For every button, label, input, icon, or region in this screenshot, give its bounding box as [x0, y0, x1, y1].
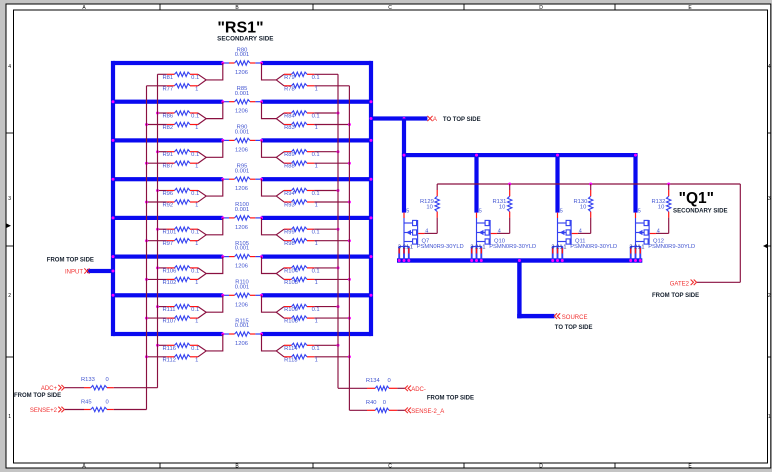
label R90 value	[235, 125, 250, 136]
wire: R88 to sense rail	[314, 162, 351, 165]
svg-text:0.1: 0.1	[191, 230, 199, 236]
svg-text:1: 1	[195, 125, 198, 131]
label R130	[573, 199, 587, 211]
svg-text:0.1: 0.1	[191, 346, 199, 352]
svg-text:1: 1	[315, 164, 318, 170]
label TO TOP SIDE (A)	[443, 117, 481, 123]
svg-text:0: 0	[106, 399, 109, 405]
svg-text:1: 1	[195, 319, 198, 325]
svg-text:1: 1	[315, 125, 318, 131]
label R108	[284, 319, 318, 325]
resistor R134 0	[338, 386, 405, 390]
svg-text:R97: R97	[163, 241, 174, 247]
wire: R83 to sense rail	[314, 123, 351, 126]
svg-text:ADC+: ADC+	[41, 386, 58, 392]
resistor R98 1	[284, 238, 314, 242]
svg-text:2: 2	[8, 293, 11, 299]
svg-text:3: 3	[768, 196, 771, 202]
wire: R104 to sense rail	[314, 266, 339, 269]
wire: gate rail	[437, 183, 740, 185]
svg-text:PSMN0R9-30YLD: PSMN0R9-30YLD	[570, 244, 617, 250]
label R133 value	[81, 377, 109, 383]
wire: left vertical bus bar	[111, 61, 115, 336]
svg-text:1: 1	[410, 245, 413, 251]
svg-text:1: 1	[560, 245, 563, 251]
wire: R107 to sense rail	[145, 317, 167, 320]
port SENSE+2	[30, 407, 64, 415]
wire: R111 to sense rail	[156, 305, 167, 308]
junction dot SOURCE	[518, 259, 521, 262]
svg-text:1206: 1206	[235, 225, 248, 231]
svg-text:1206: 1206	[235, 70, 248, 76]
label FROM TOP SIDE (input)	[47, 258, 94, 264]
svg-text:10: 10	[426, 205, 432, 211]
wire: GATE2 riser	[697, 184, 740, 282]
wire: SOURCE drop	[517, 261, 554, 319]
resistor R107 1	[167, 316, 198, 320]
wire: R82 to sense rail	[145, 123, 167, 126]
junction dots Q11 source	[551, 259, 564, 262]
svg-text:0: 0	[383, 400, 386, 406]
label 1206 row 3	[235, 147, 248, 153]
label R45 value	[81, 399, 109, 405]
svg-text:1: 1	[195, 164, 198, 170]
wire: R101 to sense rail	[156, 228, 167, 231]
resistor R94 0.1	[284, 188, 314, 192]
label R105 value	[235, 241, 250, 252]
svg-text:A: A	[433, 117, 437, 123]
wire: pennant taps R99/R98	[262, 218, 285, 241]
label R107	[163, 319, 199, 325]
svg-text:TO TOP SIDE: TO TOP SIDE	[443, 117, 481, 123]
resistor R82 1	[167, 122, 198, 126]
svg-text:1: 1	[641, 245, 644, 251]
svg-text:R104: R104	[284, 268, 299, 274]
svg-text:SECONDARY SIDE: SECONDARY SIDE	[673, 207, 728, 214]
svg-text:FROM TOP SIDE: FROM TOP SIDE	[14, 393, 61, 399]
label R93	[284, 203, 318, 209]
label R87	[163, 164, 199, 170]
wire: R112 to sense rail	[145, 355, 167, 358]
junction dots Q1 top bus	[403, 154, 638, 157]
svg-text:5: 5	[560, 208, 563, 214]
svg-text:0.1: 0.1	[312, 268, 320, 274]
svg-text:2: 2	[768, 293, 771, 299]
svg-text:1: 1	[768, 414, 771, 420]
subtitle SECONDARY SIDE (Q1)	[673, 207, 728, 214]
label R77	[163, 86, 199, 92]
label R88	[284, 164, 318, 170]
svg-text:D: D	[539, 5, 543, 11]
svg-text:3: 3	[629, 245, 632, 251]
svg-text:R82: R82	[163, 125, 174, 131]
svg-text:1: 1	[479, 245, 482, 251]
label R129	[420, 199, 434, 211]
port A	[427, 116, 437, 123]
wire: R99 to sense rail	[314, 228, 339, 231]
svg-text:1: 1	[315, 280, 318, 286]
wire: node A branch	[371, 116, 427, 120]
resistor R133 0	[64, 386, 158, 390]
title "Q1"	[679, 190, 714, 207]
svg-text:R103: R103	[284, 280, 298, 286]
svg-text:1: 1	[195, 86, 198, 92]
wire: pennant taps R104/R103	[262, 257, 285, 280]
svg-text:C: C	[388, 5, 392, 11]
pin labels Q7	[398, 208, 428, 250]
label R114	[284, 346, 320, 352]
wire: pennant taps R101/R97	[198, 218, 223, 241]
svg-text:0.1: 0.1	[191, 191, 199, 197]
wire: bus bar row 7	[113, 293, 371, 297]
label R116	[163, 346, 200, 352]
wire: Q1 drain top bus	[402, 153, 638, 157]
wire: bus bar row 4	[113, 177, 371, 181]
label R134 value	[366, 378, 391, 384]
svg-text:1: 1	[315, 241, 318, 247]
resistor R114 0.1	[284, 343, 314, 347]
wire: pennant taps R116/R112	[198, 334, 223, 357]
junction dots row 4	[221, 178, 263, 181]
resistor R129 10	[424, 184, 439, 233]
svg-text:FROM TOP SIDE: FROM TOP SIDE	[427, 395, 474, 401]
wire: pennant taps R109/R108	[262, 295, 285, 318]
svg-text:10: 10	[499, 205, 505, 211]
wire: R78 to sense rail	[314, 85, 349, 87]
transistor Q12 PSMN0R9-30YLD	[630, 213, 656, 261]
wire: R114 to sense rail	[314, 344, 339, 347]
svg-text:0: 0	[106, 377, 109, 383]
resistor R84 0.1	[284, 111, 314, 115]
svg-text:0.001: 0.001	[235, 323, 250, 329]
label R101	[163, 230, 200, 236]
svg-text:4: 4	[8, 64, 11, 70]
label R91	[163, 152, 200, 158]
svg-text:R78: R78	[284, 86, 295, 92]
svg-text:R84: R84	[284, 114, 295, 120]
resistor R103 1	[284, 277, 314, 281]
wire: Q1 source bottom bus	[397, 258, 642, 262]
shunt resistor R95 0.001 1206	[223, 177, 262, 181]
svg-text:R45: R45	[81, 399, 92, 405]
svg-text:1: 1	[315, 86, 318, 92]
svg-text:R134: R134	[366, 378, 381, 384]
shunt resistor R80 0.001 1206	[223, 61, 262, 65]
label R82	[163, 125, 199, 131]
label FROM TOP SIDE (GATE2)	[652, 293, 699, 299]
wire: bus bar row 8	[113, 332, 371, 336]
shunt resistor R85 0.001 1206	[223, 100, 262, 104]
wire: pennant taps R91/R87	[198, 140, 223, 163]
svg-text:5: 5	[638, 208, 641, 214]
shunt resistor R100 0.001 1206	[223, 216, 262, 220]
wire: right vertical bus bar	[369, 61, 373, 336]
wire: R96 to sense rail	[156, 189, 167, 192]
svg-text:1: 1	[315, 319, 318, 325]
svg-text:10: 10	[658, 205, 664, 211]
svg-text:1: 1	[563, 245, 566, 251]
wire: R116 to sense rail	[156, 344, 167, 347]
resistor R130 10	[578, 184, 593, 233]
port GATE2	[670, 280, 697, 288]
label R40 value	[366, 400, 386, 406]
svg-text:ADC-: ADC-	[411, 387, 426, 393]
svg-text:0.1: 0.1	[191, 75, 199, 81]
wire: drain drop x557	[555, 155, 559, 213]
svg-text:R98: R98	[284, 241, 295, 247]
svg-text:R111: R111	[163, 307, 176, 313]
wire: R113 to sense rail	[314, 355, 351, 358]
svg-text:R91: R91	[163, 152, 174, 158]
svg-text:R116: R116	[163, 346, 176, 352]
svg-text:1206: 1206	[235, 341, 248, 347]
label 1206 row 2	[235, 109, 248, 115]
svg-text:R133: R133	[81, 377, 95, 383]
wire: node A to Q7 drain drop	[402, 119, 406, 213]
junction dot INPUT	[112, 270, 115, 273]
junction dots row 1	[221, 62, 263, 65]
wire: R97 to sense rail	[145, 239, 167, 242]
label FROM TOP SIDE (ADC+)	[14, 393, 61, 399]
wire: pennant taps R111/R107	[198, 295, 223, 318]
svg-text:R112: R112	[163, 357, 176, 363]
svg-text:0.1: 0.1	[191, 268, 199, 274]
svg-text:SENSE-2_A: SENSE-2_A	[411, 409, 444, 415]
junction dots row 2	[221, 100, 263, 103]
svg-text:0.1: 0.1	[191, 152, 199, 158]
svg-text:4: 4	[768, 64, 771, 70]
resistor R89 0.1	[284, 150, 314, 154]
svg-text:R114: R114	[284, 346, 298, 352]
resistor R92 1	[167, 200, 198, 204]
junction dots on vertical bus bars	[112, 100, 373, 297]
title "RS1"	[217, 19, 263, 36]
wire: R98 to sense rail	[314, 239, 351, 242]
wire: drain drop x476	[474, 155, 478, 213]
svg-text:1: 1	[315, 203, 318, 209]
label TO TOP SIDE (SOURCE)	[555, 325, 593, 331]
resistor R97 1	[167, 238, 198, 242]
label R94	[284, 191, 320, 197]
label R83	[284, 125, 318, 131]
svg-text:INPUT: INPUT	[65, 269, 83, 275]
shunt resistor R90 0.001 1206	[223, 138, 262, 142]
resistor R87 1	[167, 161, 198, 165]
svg-text:R96: R96	[163, 191, 174, 197]
label R78	[284, 86, 318, 92]
svg-text:1206: 1206	[235, 109, 248, 115]
wire: pennant taps R81/R77	[198, 63, 223, 86]
label 1206 row 7	[235, 302, 248, 308]
shunt resistor R105 0.001 1206	[223, 254, 262, 258]
svg-text:R77: R77	[163, 86, 174, 92]
junction dots row 7	[221, 294, 263, 297]
label R110 value	[235, 280, 250, 291]
svg-text:R107: R107	[163, 319, 177, 325]
wire: bus bar row 1	[113, 61, 371, 65]
svg-text:D: D	[539, 463, 543, 469]
svg-text:1: 1	[195, 357, 198, 363]
label R104	[284, 268, 320, 274]
svg-text:4: 4	[579, 228, 582, 234]
wire: R79 to sense rail	[314, 73, 338, 75]
svg-text:R102: R102	[163, 280, 177, 286]
label Q10	[489, 239, 536, 251]
label Q11	[570, 239, 617, 251]
label FROM TOP SIDE (ADC-)	[427, 395, 474, 401]
transistor Q7 PSMN0R9-30YLD	[399, 213, 425, 261]
svg-text:R87: R87	[163, 164, 174, 170]
resistor R109 0.1	[284, 304, 314, 308]
wire: R81 to sense rail	[158, 73, 167, 75]
junction dots node A	[370, 117, 406, 120]
junction dots Q7 source	[398, 259, 411, 262]
svg-text:FROM TOP SIDE: FROM TOP SIDE	[652, 293, 699, 299]
wire: bus bar row 3	[113, 138, 371, 142]
wire: R106 to sense rail	[156, 266, 167, 269]
svg-text:R109: R109	[284, 307, 298, 313]
label R131	[492, 199, 506, 211]
svg-text:0.001: 0.001	[235, 284, 250, 290]
resistor R106 0.1	[167, 266, 198, 270]
svg-text:1: 1	[8, 414, 11, 420]
resistor R102 1	[167, 277, 198, 281]
label R98	[284, 241, 318, 247]
wire: left outer sense rail	[146, 86, 148, 410]
wire: R103 to sense rail	[314, 278, 351, 281]
wire: R109 to sense rail	[314, 305, 339, 308]
resistor R83 1	[284, 122, 314, 126]
svg-text:0.1: 0.1	[312, 114, 320, 120]
resistor R112 1	[167, 355, 198, 359]
junction dots row 6	[221, 255, 263, 258]
wire: right inner sense rail	[337, 74, 339, 388]
pin labels Q11	[551, 208, 581, 250]
svg-text:R94: R94	[284, 191, 295, 197]
label R132	[651, 199, 665, 211]
svg-text:0.1: 0.1	[191, 114, 199, 120]
label R92	[163, 203, 199, 209]
transistor Q11 PSMN0R9-30YLD	[552, 213, 578, 261]
wire: R84 to sense rail	[314, 112, 339, 115]
svg-text:R81: R81	[163, 75, 174, 81]
svg-text:0: 0	[388, 378, 391, 384]
junction dots row 3	[221, 139, 263, 142]
label 1206 row 8	[235, 341, 248, 347]
svg-text:R92: R92	[163, 203, 174, 209]
svg-text:1: 1	[406, 245, 409, 251]
wire: R94 to sense rail	[314, 189, 339, 192]
svg-text:0.001: 0.001	[235, 168, 250, 174]
transistor Q10 PSMN0R9-30YLD	[471, 213, 497, 261]
wire: pennant taps R96/R92	[198, 179, 223, 202]
wire: pennant taps R89/R88	[262, 140, 285, 163]
label R89	[284, 152, 320, 158]
svg-text:0.1: 0.1	[312, 191, 320, 197]
junction dots row 5	[221, 216, 263, 219]
wire: pennant taps R94/R93	[262, 179, 285, 202]
svg-text:1206: 1206	[235, 302, 248, 308]
svg-text:1206: 1206	[235, 147, 248, 153]
junction dots gate rail	[508, 183, 670, 186]
svg-text:1: 1	[195, 241, 198, 247]
resistor R81 0.1	[167, 72, 198, 76]
resistor R79 0.1	[284, 72, 314, 76]
svg-text:0.001: 0.001	[235, 130, 250, 136]
svg-text:PSMN0R9-30YLD: PSMN0R9-30YLD	[489, 244, 536, 250]
svg-text:3: 3	[8, 196, 11, 202]
svg-text:4: 4	[498, 228, 501, 234]
svg-text:"RS1": "RS1"	[217, 19, 263, 36]
resistor R116 0.1	[167, 343, 198, 347]
svg-text:PSMN0R9-30YLD: PSMN0R9-30YLD	[417, 244, 464, 250]
svg-text:3: 3	[470, 245, 473, 251]
label R99	[284, 230, 320, 236]
subtitle SECONDARY SIDE (RS1)	[217, 36, 273, 43]
label R84	[284, 114, 320, 120]
resistor R108 1	[284, 316, 314, 320]
wire: R92 to sense rail	[145, 201, 167, 204]
resistor R88 1	[284, 161, 314, 165]
label 1206 row 1	[235, 70, 248, 76]
svg-text:TO TOP SIDE: TO TOP SIDE	[555, 325, 593, 331]
label 1206 row 5	[235, 225, 248, 231]
label R103	[284, 280, 318, 286]
svg-text:R101: R101	[163, 230, 177, 236]
wire: pennant taps R106/R102	[198, 257, 223, 280]
svg-text:4: 4	[425, 228, 428, 234]
wire: pennant taps R86/R82	[198, 102, 223, 125]
label R106	[163, 268, 200, 274]
svg-text:"Q1": "Q1"	[679, 190, 714, 207]
svg-text:1: 1	[195, 203, 198, 209]
svg-text:4: 4	[657, 228, 660, 234]
svg-text:0.001: 0.001	[235, 207, 250, 213]
label 1206 row 6	[235, 264, 248, 270]
wire: R89 to sense rail	[314, 150, 339, 153]
resistor R111 0.1	[167, 304, 198, 308]
label R112	[163, 357, 199, 363]
resistor R93 1	[284, 200, 314, 204]
svg-text:1: 1	[638, 245, 641, 251]
label R111	[163, 307, 200, 313]
svg-text:FROM TOP SIDE: FROM TOP SIDE	[47, 258, 94, 264]
svg-text:0.001: 0.001	[235, 246, 250, 252]
wire: R91 to sense rail	[156, 150, 167, 153]
label R96	[163, 191, 200, 197]
svg-text:R106: R106	[163, 268, 177, 274]
svg-text:SOURCE: SOURCE	[562, 315, 588, 321]
svg-text:0.1: 0.1	[312, 75, 320, 81]
wire: R93 to sense rail	[314, 201, 351, 204]
svg-text:3: 3	[398, 245, 401, 251]
svg-text:5: 5	[479, 208, 482, 214]
label R79	[284, 75, 320, 81]
svg-text:0.1: 0.1	[312, 346, 320, 352]
label R109	[284, 307, 320, 313]
wire: R102 to sense rail	[145, 278, 167, 281]
svg-text:3: 3	[551, 245, 554, 251]
svg-text:SENSE+2: SENSE+2	[30, 408, 58, 414]
svg-text:R88: R88	[284, 164, 295, 170]
wire: right outer sense rail	[348, 86, 350, 411]
label 1206 row 4	[235, 186, 248, 192]
junction dots row 8	[221, 333, 263, 336]
resistor R78 1	[284, 84, 314, 88]
wire: R87 to sense rail	[145, 162, 167, 165]
svg-text:GATE2: GATE2	[670, 281, 690, 287]
label Q12	[648, 239, 695, 251]
